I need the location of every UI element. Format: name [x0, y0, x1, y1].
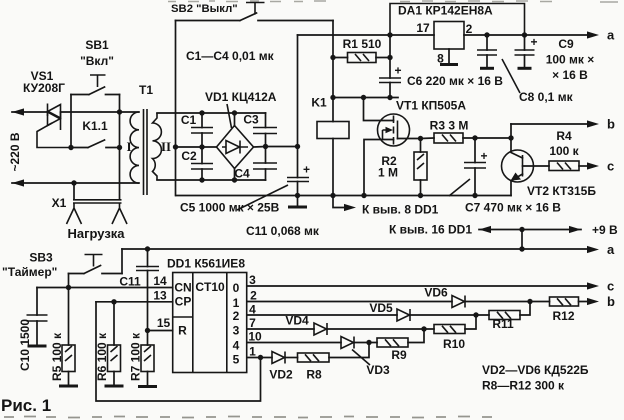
- label pin 10: [248, 330, 262, 344]
- svg-text:R11: R11: [492, 317, 514, 331]
- svg-text:b: b: [607, 117, 615, 132]
- resistor R6: [108, 302, 121, 386]
- node SB1 right to primary: [117, 109, 122, 114]
- svg-text:14: 14: [153, 274, 167, 288]
- ground below C5: [288, 196, 307, 208]
- wire +9V riser: [521, 230, 523, 250]
- svg-text:7: 7: [249, 316, 256, 330]
- svg-text:1: 1: [233, 296, 240, 310]
- svg-text:a: a: [607, 28, 615, 43]
- capacitor C11: [136, 249, 159, 331]
- wire 220V top line: [12, 111, 139, 113]
- label SB3: [2, 251, 57, 280]
- node K1 top / drain wire left: [330, 95, 335, 100]
- label Рис. 1: [1, 396, 51, 415]
- transistor VT1: [364, 98, 421, 196]
- label R9: [391, 348, 407, 362]
- wire main plus rail top: [298, 34, 435, 36]
- node SB3 R5 pin14: [66, 285, 71, 290]
- svg-text:R10: R10: [443, 337, 465, 351]
- capacitor C3: [253, 113, 277, 147]
- wire feedback pin1 to pin13: [96, 302, 261, 401]
- label output 2: [233, 309, 240, 323]
- svg-text:К выв. 16 DD1: К выв. 16 DD1: [389, 223, 472, 237]
- capacitor C10: [27, 288, 48, 346]
- resistor R8: [298, 343, 370, 363]
- svg-text:R1 510: R1 510: [343, 37, 382, 51]
- label pin 13: [153, 289, 167, 303]
- wire pin 13: [96, 301, 173, 303]
- label R3 3 М: [430, 119, 469, 133]
- label Нагрузка: [67, 226, 125, 241]
- svg-text:R8—R12 300 к: R8—R12 300 к: [482, 379, 565, 393]
- ground below C10: [28, 345, 47, 348]
- svg-text:VD6: VD6: [424, 286, 448, 300]
- node bridge bottom: [232, 177, 237, 182]
- label a upper: [607, 28, 615, 43]
- svg-text:"Вкл": "Вкл": [80, 54, 114, 68]
- wire DC minus: [176, 146, 217, 148]
- arrow a lower: [587, 246, 599, 253]
- capacitor C7: [464, 138, 488, 196]
- capacitor C6: [379, 35, 402, 98]
- node R6 pin13: [111, 299, 116, 304]
- ground below C9: [518, 67, 532, 70]
- svg-text:R8: R8: [306, 368, 322, 382]
- wire AC top (secondary top to C3): [157, 112, 266, 114]
- node gate of VS1 / SB1 / K1.1 junction: [68, 145, 73, 150]
- label C8 value: [502, 59, 574, 104]
- svg-text:17: 17: [416, 21, 430, 35]
- label output 0: [233, 281, 240, 295]
- wire R3 to VT2 collector node: [475, 137, 511, 139]
- svg-text:C5 1000 мк × 25В: C5 1000 мк × 25В: [180, 201, 280, 215]
- arrow a upper: [587, 31, 599, 38]
- svg-text:SB3: SB3: [29, 251, 53, 265]
- label R11: [492, 317, 514, 331]
- wire DC plus: [254, 146, 298, 149]
- resistor R11: [476, 302, 530, 320]
- wire drain node horizontal: [333, 97, 398, 99]
- wire SB2 left riser: [175, 21, 177, 148]
- node C11 top on a line: [145, 246, 150, 251]
- label c lower: [607, 279, 614, 294]
- label C3: [243, 113, 259, 127]
- svg-text:R9: R9: [391, 348, 407, 362]
- svg-text:1: 1: [249, 345, 256, 359]
- wire c line lower (output 0): [247, 285, 590, 287]
- label R10: [443, 337, 465, 351]
- svg-text:+9 В: +9 В: [592, 223, 618, 237]
- capacitor C4: [253, 147, 277, 181]
- svg-text:С8 0,1 мк: С8 0,1 мк: [519, 90, 574, 104]
- label pin 7: [249, 316, 256, 330]
- label DD1 К561ИЕ8: [167, 257, 245, 271]
- wire AC bottom (secondary bottom to C4): [157, 179, 266, 181]
- node VD6 R11 R12: [527, 299, 532, 304]
- transformer T1 secondary winding II: [153, 113, 162, 180]
- svg-text:13: 13: [153, 289, 167, 303]
- transformer T1 primary winding I: [130, 112, 139, 183]
- svg-text:2: 2: [233, 309, 240, 323]
- capacitor C1: [191, 113, 213, 147]
- op-amp DA1 body КР142ЕН8А: [434, 22, 464, 50]
- resistor R1: [333, 53, 390, 63]
- label winding II: [161, 139, 171, 154]
- svg-text:VD2—VD6 КД522Б: VD2—VD6 КД522Б: [482, 363, 589, 377]
- node C8 top: [484, 32, 489, 37]
- svg-text:10: 10: [248, 330, 262, 344]
- svg-text:CP: CP: [175, 295, 192, 309]
- relay contact K1.1: [71, 140, 120, 148]
- label R5 100 к: [50, 332, 64, 381]
- svg-text:c: c: [607, 159, 614, 174]
- label DA1 КР142ЕН8А: [398, 4, 493, 18]
- wire output 2 row: [247, 314, 397, 316]
- label X1: [52, 196, 67, 210]
- svg-text:VT2 КТ315Б: VT2 КТ315Б: [527, 184, 596, 198]
- svg-text:DD1 К561ИЕ8: DD1 К561ИЕ8: [167, 257, 245, 271]
- svg-text:+: +: [530, 35, 537, 49]
- wire SB2/R1/K1 vertical: [332, 21, 334, 122]
- counter DD1 К561ИЕ8 body: [173, 273, 247, 373]
- svg-text:VD1 КЦ412А: VD1 КЦ412А: [205, 90, 277, 104]
- label VD4: [285, 314, 309, 328]
- label VD2: [269, 368, 293, 382]
- label К выв. 16 DD1: [389, 223, 472, 237]
- node R1 right top wire: [387, 32, 392, 37]
- svg-text:R4: R4: [556, 129, 572, 143]
- label R4: [549, 129, 579, 158]
- label CT10: [195, 280, 225, 294]
- label R2: [378, 154, 398, 180]
- svg-text:C11: C11: [119, 275, 141, 289]
- label pin 4: [249, 303, 256, 317]
- node output 5 feedback: [258, 355, 263, 360]
- node C6 bottom: [387, 95, 392, 100]
- label R12: [552, 309, 574, 323]
- label +9 В: [592, 223, 618, 237]
- wire +9V link: [479, 229, 581, 231]
- svg-text:VD4: VD4: [285, 314, 309, 328]
- svg-text:3: 3: [233, 324, 240, 338]
- label K1.1: [82, 119, 108, 133]
- svg-text:+: +: [394, 64, 401, 78]
- capacitor C5: [287, 147, 310, 196]
- label output 1: [233, 296, 240, 310]
- label VD6: [424, 286, 448, 300]
- svg-text:~220 В: ~220 В: [8, 132, 22, 171]
- svg-text:X1: X1: [52, 196, 67, 210]
- label c upper: [607, 159, 614, 174]
- svg-text:C4: C4: [234, 167, 250, 181]
- label R6 100 к: [95, 332, 109, 381]
- svg-text:VD2: VD2: [269, 368, 293, 382]
- svg-text:100 мк ×: 100 мк ×: [546, 53, 595, 67]
- svg-text:R7 100 к: R7 100 к: [129, 332, 143, 381]
- svg-text:C9: C9: [558, 37, 574, 51]
- node rail C7: [472, 193, 477, 198]
- svg-text:VD5: VD5: [369, 301, 393, 315]
- label b upper: [607, 117, 615, 132]
- label К выв. 8 DD1: [362, 203, 439, 217]
- svg-text:C3: C3: [243, 113, 259, 127]
- wire switched line vertical: [119, 112, 121, 200]
- label pin 1: [249, 345, 256, 359]
- label C10 1500: [18, 319, 32, 371]
- wire SB3 left riser: [68, 274, 70, 288]
- label VD2-VD6 type: [482, 363, 589, 377]
- label R1 510: [343, 37, 382, 51]
- label pin 8: [437, 52, 444, 66]
- resistor R7: [141, 331, 154, 386]
- svg-text:b: b: [607, 294, 615, 309]
- svg-text:K1: K1: [311, 96, 327, 110]
- label R: [178, 324, 187, 338]
- node C1 top: [199, 110, 204, 115]
- label output 5: [233, 353, 240, 367]
- node +9V riser top: [519, 227, 524, 232]
- node C3 C4 junction: [263, 144, 268, 149]
- svg-text:+: +: [303, 163, 310, 177]
- label VT2 КТ315Б: [527, 184, 596, 198]
- node bottom line to X1: [71, 180, 76, 185]
- diode VD6: [452, 296, 530, 308]
- node VD3 R8 R9: [366, 340, 371, 345]
- label pin 14: [153, 274, 167, 288]
- svg-text:2: 2: [466, 22, 473, 36]
- svg-text:R12: R12: [552, 309, 574, 323]
- node +9V on a line: [519, 246, 524, 251]
- transistor VT2: [502, 124, 550, 196]
- resistor R4: [549, 161, 590, 171]
- node C2 bottom: [199, 177, 204, 182]
- wire a line lower: [122, 248, 590, 250]
- svg-text:1 М: 1 М: [378, 166, 398, 180]
- wire a line upper: [464, 34, 590, 36]
- label T1: [139, 83, 153, 97]
- wire output 4 row: [247, 342, 341, 344]
- capacitor C9: [515, 35, 538, 68]
- label pin 3: [249, 273, 256, 287]
- diode bridge VD1: [217, 113, 254, 180]
- arrow to DD1 pin16: [479, 226, 491, 233]
- label winding I: [126, 139, 131, 154]
- label output 4: [233, 339, 240, 353]
- svg-text:R3 3 М: R3 3 М: [430, 119, 469, 133]
- svg-text:× 16 В: × 16 В: [552, 68, 588, 82]
- svg-text:C10 1500: C10 1500: [18, 319, 32, 371]
- svg-text:SB1: SB1: [85, 38, 109, 52]
- svg-text:3: 3: [249, 273, 256, 287]
- node K1.1 right: [117, 145, 122, 150]
- node VT2 collector / R3: [508, 135, 513, 140]
- label C4: [234, 167, 250, 181]
- label pin 17: [416, 21, 430, 35]
- node R1 left: [330, 55, 335, 60]
- wire b line lower (output 1): [247, 301, 452, 303]
- wire pin 15: [148, 330, 173, 332]
- svg-text:c: c: [607, 279, 614, 294]
- resistor R12: [530, 297, 590, 306]
- regulator DA1 label frame: [390, 4, 525, 36]
- label C11 value: [246, 224, 320, 238]
- svg-text:С1—С4 0,01 мк: С1—С4 0,01 мк: [186, 49, 275, 63]
- relay coil K1: [317, 122, 349, 196]
- ground below R7: [138, 385, 157, 388]
- label CN: [174, 281, 191, 295]
- node rail C5: [295, 193, 300, 198]
- svg-text:+: +: [480, 149, 487, 163]
- arrow to +9V: [569, 226, 581, 233]
- svg-text:R5 100 к: R5 100 к: [50, 332, 64, 381]
- label VT1 КП505А: [396, 99, 466, 113]
- node DC minus / SB2 / rail: [173, 144, 178, 149]
- label VD5: [369, 301, 393, 315]
- diode VD5: [397, 309, 476, 321]
- arrow c upper: [587, 162, 599, 169]
- svg-text:100 к: 100 к: [549, 144, 579, 158]
- node VD5 R10 R11: [473, 312, 478, 317]
- svg-text:I: I: [126, 139, 131, 154]
- node VT1 source / R2 / R3: [418, 136, 423, 141]
- ground below R5: [59, 385, 78, 388]
- label C7 value: [449, 179, 561, 215]
- svg-text:С11 0,068 мк: С11 0,068 мк: [246, 224, 320, 238]
- svg-text:R: R: [178, 324, 187, 338]
- resistor R2: [414, 139, 427, 196]
- label R7 100 к: [129, 332, 143, 381]
- pushbutton SB1: [71, 75, 120, 148]
- node C7 top: [472, 135, 477, 140]
- resistor R10: [424, 315, 476, 334]
- wire raw plus riser: [297, 35, 299, 147]
- svg-text:VT1 КП505А: VT1 КП505А: [396, 99, 466, 113]
- label pin 2: [250, 289, 257, 303]
- label C1: [181, 113, 197, 127]
- label CP: [175, 295, 192, 309]
- svg-text:С6 220 мк × 16 В: С6 220 мк × 16 В: [407, 74, 503, 88]
- svg-text:R6 100 к: R6 100 к: [95, 332, 109, 381]
- wire output 3 row: [247, 328, 314, 330]
- ground below C8: [480, 67, 494, 70]
- svg-text:"Таймер": "Таймер": [2, 265, 57, 279]
- label C6 value: [407, 74, 503, 88]
- arrow b lower: [587, 298, 599, 305]
- diode VD3: [341, 337, 369, 349]
- node rail VT1 source: [361, 193, 366, 198]
- label VD1 КЦ412А: [205, 90, 277, 128]
- label R8-R12 value: [482, 379, 565, 393]
- wire b line upper: [511, 123, 590, 125]
- svg-text:C2: C2: [181, 149, 197, 163]
- capacitor C2: [191, 147, 213, 180]
- arrow ~220V bottom terminal: [12, 179, 24, 186]
- resistor R5: [62, 288, 75, 386]
- label a lower: [607, 242, 615, 257]
- node rail K1: [330, 193, 335, 198]
- svg-text:2: 2: [250, 289, 257, 303]
- svg-text:SB2 "Выкл": SB2 "Выкл": [171, 3, 238, 15]
- svg-text:15: 15: [157, 316, 171, 330]
- diode VD4: [314, 323, 424, 335]
- arrow c lower: [587, 282, 599, 289]
- label pin 2: [466, 22, 473, 36]
- label C1-C4 value: [186, 49, 275, 63]
- svg-text:0: 0: [233, 281, 240, 295]
- scan noise top edge: [168, 1, 618, 2]
- pushbutton SB2: [176, 3, 334, 21]
- svg-text:C1: C1: [181, 113, 197, 127]
- svg-text:Нагрузка: Нагрузка: [67, 226, 125, 241]
- label VD3: [352, 350, 390, 378]
- wire branch to DD1 pin8: [333, 196, 348, 208]
- svg-text:CN: CN: [174, 281, 191, 295]
- arrow b upper: [587, 120, 599, 127]
- label ~220 В: [8, 132, 22, 171]
- label b lower: [607, 294, 615, 309]
- wire output 5 row: [247, 357, 272, 359]
- wire pin 14: [37, 287, 173, 289]
- label C11: [119, 275, 141, 289]
- capacitor C8: [477, 35, 497, 68]
- pushbutton SB3: [69, 255, 123, 274]
- scan noise bottom edge: [4, 417, 492, 418]
- svg-text:a: a: [607, 242, 615, 257]
- label VS1: [23, 69, 65, 95]
- svg-text:II: II: [161, 139, 171, 154]
- label C5 value: [180, 185, 288, 215]
- node VT1 drain riser: [361, 95, 366, 100]
- node VD4 R9 R10: [421, 326, 426, 331]
- svg-text:C7 470 мк × 16 В: C7 470 мк × 16 В: [465, 201, 561, 215]
- wire common ground rail: [176, 195, 511, 197]
- node R1 right: [387, 55, 392, 60]
- svg-text:DA1 КР142ЕН8А: DA1 КР142ЕН8А: [398, 4, 493, 18]
- label K1: [311, 96, 327, 110]
- wire 220V bottom line: [12, 182, 139, 184]
- label SB2: [171, 3, 238, 15]
- ground DA1 pin 8: [440, 49, 458, 65]
- arrow to DD1 pin8: [344, 204, 356, 211]
- node C1 C2 junction: [199, 144, 204, 149]
- svg-text:CT10: CT10: [195, 280, 225, 294]
- node C9 top: [522, 32, 527, 37]
- connector X1 socket: [67, 183, 128, 224]
- node rail R2: [418, 193, 423, 198]
- label C2: [181, 149, 197, 163]
- transformer T1 core: [144, 109, 148, 195]
- svg-text:5: 5: [233, 353, 240, 367]
- wire SB3 right riser: [121, 249, 123, 274]
- wire ground rail riser left: [175, 147, 177, 196]
- triac VS1: [37, 104, 71, 148]
- node DC plus / C5 riser: [295, 144, 300, 149]
- label SB1: [80, 38, 114, 68]
- node bridge top: [232, 110, 237, 115]
- ground below R6: [105, 385, 124, 388]
- svg-text:К выв. 8 DD1: К выв. 8 DD1: [362, 203, 439, 217]
- resistor R9: [369, 329, 424, 347]
- node C11 R7 pin15: [145, 328, 150, 333]
- svg-text:КУ208Г: КУ208Г: [23, 81, 65, 95]
- label output 3: [233, 324, 240, 338]
- label pin 15: [157, 316, 171, 330]
- label C9: [546, 37, 595, 82]
- arrow ~220V top terminal: [12, 108, 24, 115]
- diode VD2: [272, 352, 298, 364]
- label R8: [306, 368, 322, 382]
